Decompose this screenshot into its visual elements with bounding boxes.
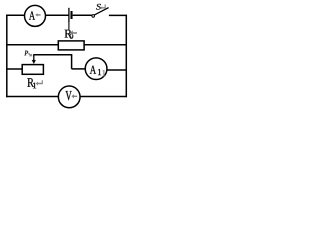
switch blade <box>94 8 108 15</box>
resistor R0 box <box>58 41 84 50</box>
battery short plate <box>70 11 72 19</box>
cursor arrow left at A <box>35 13 40 16</box>
wire bottom left <box>6 96 58 98</box>
battery long plate <box>68 8 70 22</box>
wire switch to top-right corner <box>109 14 127 16</box>
rheostat R1 box <box>22 65 43 75</box>
rheostat slider arrow <box>33 55 35 61</box>
label S switch <box>96 4 101 10</box>
cursor arrow left at R0 <box>70 30 77 35</box>
voltmeter V <box>58 86 80 108</box>
cursor return arrow at S <box>100 4 106 9</box>
wire rheostat left <box>6 68 22 70</box>
label 1 of A1 <box>98 69 101 75</box>
wire left vertical <box>6 15 8 98</box>
wire right vertical <box>125 15 127 98</box>
wire bottom right <box>80 96 127 98</box>
label 0 of R0 <box>70 34 74 39</box>
label 1 of R1 <box>33 83 36 89</box>
label R of R0 <box>65 30 72 38</box>
wire top-left horizontal <box>6 14 25 16</box>
ammeter A <box>25 5 46 26</box>
wire slider vertical drop <box>71 55 73 69</box>
label V voltmeter <box>66 91 72 100</box>
label gray 1 of A1 <box>102 70 105 76</box>
label P slider <box>24 51 28 55</box>
wire A1 right <box>107 69 127 71</box>
label A of A1 <box>90 66 96 74</box>
wire A to battery <box>45 14 68 16</box>
wire to ammeter A1 <box>72 68 87 70</box>
cursor return arrow at R1 <box>36 80 43 85</box>
cursor arrow down-right at P <box>28 53 33 57</box>
wire slider horizontal <box>33 54 72 56</box>
switch S pivot <box>92 15 95 18</box>
wire R0 branch right <box>84 44 127 46</box>
label A ammeter <box>29 11 35 19</box>
wire battery to switch <box>73 14 92 16</box>
cursor arrow left at V <box>71 94 77 98</box>
wire R0 branch left <box>6 44 58 46</box>
battery tail wire down <box>68 22 70 30</box>
ammeter A1 <box>85 58 107 80</box>
label R of R1 <box>27 78 34 86</box>
